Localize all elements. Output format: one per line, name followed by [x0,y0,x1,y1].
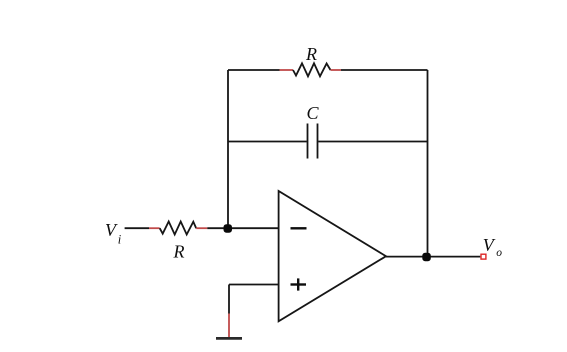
resistor R2 (input) zigzag body [160,222,197,235]
wire capacitor branch left [228,141,307,143]
svg-text:R: R [173,241,185,261]
wire top feedback right segment [341,69,428,71]
svg-text:C: C [306,103,319,123]
capacitor C1 left plate [307,124,309,159]
wire output from op-amp [386,256,480,258]
ground red pin lead [228,314,230,338]
wire right vertical (output riser) [427,70,429,257]
resistor R2 (input) right red pin [196,227,207,229]
junction output node [422,253,431,262]
ground bar [216,337,242,340]
capacitor C1 right plate [317,124,319,159]
output terminal red square [481,254,486,259]
resistor R1 (feedback) left red pin [280,69,294,71]
svg-text:o: o [496,247,502,259]
resistor R1 (feedback) zigzag body [293,63,331,76]
wire left vertical (node A riser) [227,70,229,228]
svg-text:i: i [118,233,122,247]
wire input resistor to node A [207,227,278,229]
wire top feedback left segment [228,69,280,71]
wire input from Vi [125,227,149,229]
resistor R2 (input) left red pin [149,227,160,229]
op-amp U1 triangle [279,191,386,321]
op-amp U1 minus sign [291,227,307,229]
resistor R1 (feedback) right red pin [331,69,342,71]
junction node A (inverting input) [224,224,233,233]
wire capacitor branch right [318,141,427,143]
wire non-inverting input vertical drop [228,285,230,314]
wire non-inverting input horizontal [229,284,279,286]
svg-text:R: R [305,44,317,64]
op-amp U1 plus sign [291,278,307,290]
